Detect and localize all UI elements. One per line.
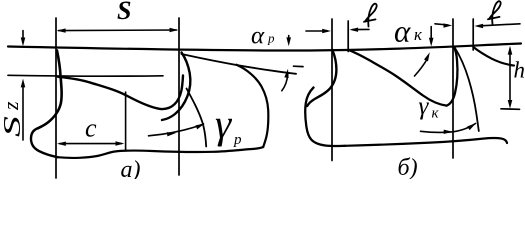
svg-text:к: к (414, 25, 423, 44)
extension line at x=473 (fig b tooth2 land end) (472, 19, 474, 50)
dimension Sz upper arrow (22, 31, 24, 41)
alpha-k upper arrow (430, 27, 432, 41)
h base reference line (501, 108, 520, 111)
dimension S line (59, 29, 177, 32)
tooth 1 lower ear bulge (fig a) (31, 128, 58, 157)
svg-text:z: z (0, 101, 23, 111)
tooth 2 face curl (fig a) (162, 53, 190, 121)
extension line at x=453 (fig b tooth2 edge) (452, 19, 454, 158)
short dash left of fig b (294, 65, 304, 67)
tooth 2 back relief line (fig a) (182, 54, 297, 74)
alpha-p upper arrow (288, 36, 290, 41)
dimension h shaft and arrows (509, 50, 511, 104)
svg-text:γ: γ (419, 93, 430, 120)
dimension Sz lower arrow (21, 79, 26, 88)
svg-text:p: p (233, 132, 242, 148)
body bottom line (fig a) (58, 147, 264, 158)
svg-text:б): б) (398, 155, 418, 179)
extension line at x=332 (fig b tooth1 edge) (331, 19, 333, 161)
dimension c line (60, 143, 122, 145)
gamma-k angle arc (421, 131, 453, 132)
svg-text:а): а) (121, 157, 141, 179)
alpha-k lower arrow with tail (424, 52, 430, 61)
svg-text:S: S (117, 0, 131, 25)
alpha-p lower arrow with curved tail (284, 69, 288, 78)
extension line at x=56 (tooth1 tip, fig a) (55, 18, 57, 178)
svg-text:p: p (267, 31, 275, 46)
dimension l1 line right segment (353, 28, 370, 30)
label l2 (script ell) (488, 1, 501, 24)
svg-text:c: c (85, 114, 97, 143)
label l1 (script ell) (364, 4, 377, 27)
gamma-p reference line (fig a) (187, 89, 207, 147)
dimension c extension line (125, 92, 127, 150)
gamma-k reference line (fig b) (454, 47, 479, 131)
tooth 2' relief curve (fig b) (473, 47, 514, 66)
tooth 1 back and gullet (fig a) (58, 76, 183, 110)
body left edge (fig b) (305, 88, 345, 147)
body bottom line (fig b) (345, 138, 507, 146)
dimension l2 line left segment (435, 24, 448, 25)
main top line (workpiece surface) (8, 44, 521, 51)
svg-text:S: S (0, 116, 26, 137)
extension line at x=179 (tooth2 tip, fig a) (178, 18, 180, 175)
svg-text:h: h (514, 58, 525, 83)
svg-text:α: α (251, 23, 265, 50)
tooth 1' relieved back curve (fig b) (348, 50, 446, 106)
gamma-p angle arc (149, 124, 204, 136)
dimension l2 line right segment (479, 24, 521, 26)
gullet after tooth 2 / right edge of body (fig a) (237, 65, 269, 147)
svg-text:к: к (432, 106, 440, 122)
svg-text:α: α (394, 14, 411, 49)
dimension l1 line left segment (306, 30, 328, 32)
tooth 1 face (fig a) (38, 51, 62, 129)
tooth 1' face (fig b) (307, 50, 336, 106)
line B (previous tooth tip level, fig a) (8, 74, 163, 77)
extension line at x=348 (fig b tooth1 land end) (347, 21, 349, 52)
svg-text:γ: γ (215, 101, 233, 147)
tooth 2' face (fig b) (447, 47, 458, 105)
